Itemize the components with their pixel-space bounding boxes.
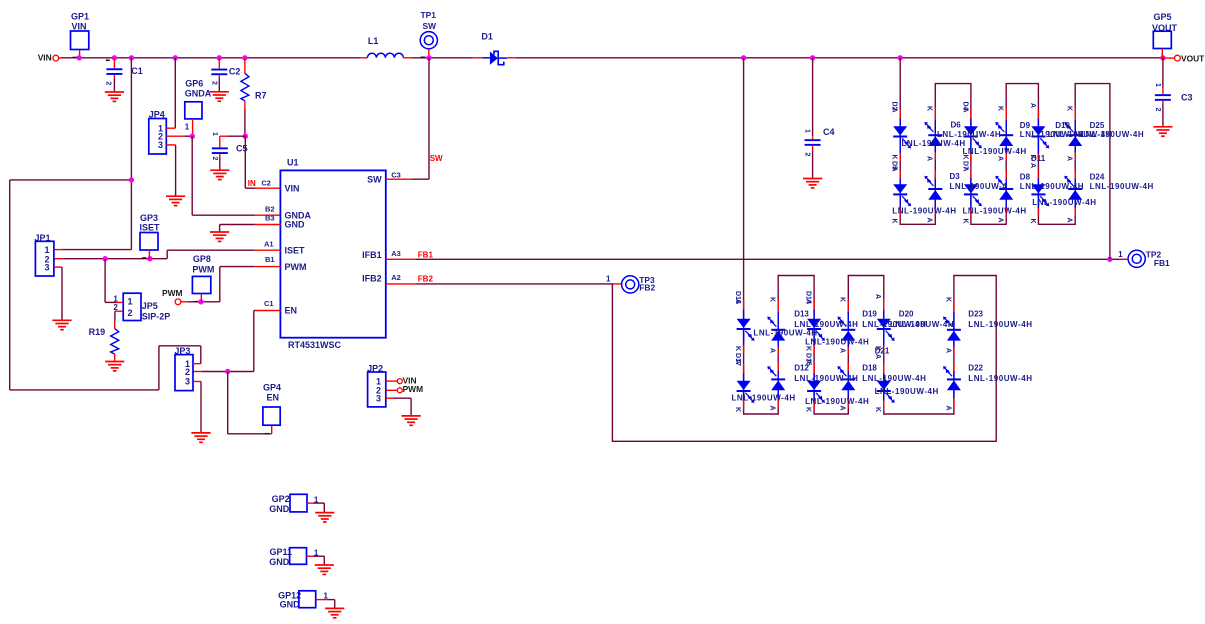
testpoint TP1 (420, 10, 437, 58)
svg-text:VIN: VIN (285, 183, 300, 193)
svg-text:A: A (944, 406, 951, 411)
svg-text:R7: R7 (255, 90, 267, 100)
svg-text:LNL-190UW-4H: LNL-190UW-4H (937, 130, 1001, 139)
svg-text:A: A (1029, 103, 1036, 108)
svg-text:B2: B2 (265, 205, 275, 214)
inductor L1 (367, 36, 403, 58)
svg-text:K: K (769, 297, 776, 302)
svg-text:LNL-190UW-4H: LNL-190UW-4H (1080, 130, 1144, 139)
ground of C1 (105, 92, 124, 101)
svg-text:RT4531WSC: RT4531WSC (288, 340, 342, 350)
svg-text:1: 1 (606, 274, 611, 283)
svg-text:ISET: ISET (140, 223, 161, 233)
label LED D4 value (963, 147, 1027, 156)
capacitor C4 (804, 58, 835, 179)
svg-text:GP2: GP2 (272, 494, 290, 504)
svg-text:VOUT: VOUT (1181, 54, 1205, 64)
LED column 5 bottom array (anodes down) (877, 299, 895, 409)
svg-text:PWM: PWM (162, 288, 182, 298)
connector JP4 (149, 110, 167, 155)
svg-text:K: K (805, 407, 812, 412)
svg-text:K: K (891, 155, 898, 160)
svg-text:SW: SW (430, 154, 443, 163)
wire JP2 pin1 to VIN flag (386, 375, 417, 385)
label LED D9 (1020, 121, 1084, 139)
wire FB2 net (386, 274, 622, 284)
label LED D8 (1020, 173, 1084, 192)
LED column 4 top array (anodes up) (995, 107, 1013, 215)
connector JP2 (367, 363, 386, 407)
wire ISET net (54, 250, 281, 259)
svg-text:FB1: FB1 (1154, 258, 1170, 268)
wire EN net (193, 311, 280, 372)
connector pad GP11 GND (269, 547, 324, 567)
svg-text:1: 1 (211, 132, 218, 136)
connector JP5 SIP-2P (113, 293, 170, 321)
LED column 6 bottom array (anodes up) (943, 300, 961, 408)
svg-text:A: A (769, 348, 776, 353)
node VIN port flag (38, 53, 59, 63)
ground of GP12 (325, 608, 344, 617)
pin labels top LED column 5 (1029, 103, 1036, 224)
capacitor C5 (211, 132, 248, 170)
svg-text:D11: D11 (1031, 154, 1046, 163)
connector pad GP5 VOUT (1152, 12, 1178, 58)
svg-text:K: K (805, 346, 812, 351)
LED column 4 bottom array (anodes up) (837, 300, 855, 408)
svg-text:2: 2 (127, 308, 132, 318)
testpoint TP2 FB1 (1118, 249, 1170, 268)
svg-text:LNL-190UW-4H: LNL-190UW-4H (732, 393, 796, 402)
label LED D21 (875, 347, 890, 356)
svg-text:K: K (839, 297, 846, 302)
ground of C4 (803, 179, 822, 188)
svg-text:B1: B1 (265, 255, 275, 264)
svg-text:LNL-190UW-4H: LNL-190UW-4H (794, 374, 858, 383)
svg-text:A: A (839, 348, 846, 353)
pin labels top LED column 6 (1066, 106, 1073, 223)
label LED D10 (1048, 121, 1112, 139)
svg-text:1: 1 (1118, 250, 1123, 259)
ground of GP2 (315, 513, 334, 522)
svg-text:2: 2 (211, 81, 218, 85)
svg-text:D21: D21 (875, 347, 890, 356)
label LED D18 (862, 364, 926, 384)
svg-text:LNL-190UW-4H: LNL-190UW-4H (963, 206, 1027, 215)
svg-text:R19: R19 (89, 327, 106, 337)
label LED D11 value (1032, 198, 1096, 207)
LED column 1 top array (anodes down) (893, 110, 911, 216)
node PWM port flag (162, 288, 198, 304)
svg-text:GP1: GP1 (71, 12, 89, 22)
pin labels top LED column 1 (891, 102, 898, 224)
svg-text:A: A (805, 299, 812, 304)
svg-text:3: 3 (185, 376, 190, 386)
svg-text:C3: C3 (1181, 93, 1193, 103)
svg-text:1: 1 (314, 548, 319, 557)
svg-text:GND: GND (285, 220, 306, 230)
wire JP4 pin1 to rail (174, 58, 176, 128)
svg-text:EN: EN (285, 306, 298, 316)
svg-text:L1: L1 (368, 36, 379, 46)
resistor R7 (241, 58, 267, 136)
svg-text:D3: D3 (950, 172, 961, 181)
connector pad GP12 GND (278, 591, 335, 610)
svg-text:1: 1 (185, 123, 190, 132)
svg-text:GNDA: GNDA (185, 89, 212, 99)
svg-text:B3: B3 (265, 214, 275, 223)
label LED D20 (890, 310, 954, 329)
ground of JP3 pin3 (191, 433, 210, 442)
pin labels bottom LED column 5 (874, 294, 881, 412)
svg-text:1: 1 (314, 495, 319, 504)
svg-text:D9: D9 (1020, 121, 1031, 130)
connector pad GP6 GNDA (185, 79, 212, 137)
ground of C5 (210, 170, 229, 179)
svg-text:D12: D12 (794, 364, 809, 373)
svg-text:FB2: FB2 (418, 274, 434, 283)
svg-text:LNL-190UW-4H: LNL-190UW-4H (1090, 182, 1154, 191)
label LED D22 (968, 364, 1032, 384)
svg-text:LNL-190UW-4H: LNL-190UW-4H (968, 320, 1032, 329)
svg-text:LNL-190UW-4H: LNL-190UW-4H (963, 147, 1027, 156)
svg-text:C2: C2 (261, 178, 271, 187)
LED column 3 bottom array (anodes down) (807, 299, 825, 409)
svg-text:D6: D6 (951, 121, 962, 130)
svg-text:A: A (926, 218, 933, 223)
wire top VIN/VOUT rail (61, 57, 1163, 59)
svg-text:A2: A2 (391, 273, 401, 282)
svg-text:A: A (997, 156, 1004, 161)
resistor R19 (89, 327, 119, 362)
svg-text:JP5: JP5 (142, 301, 158, 311)
svg-text:D25: D25 (1090, 121, 1105, 130)
svg-text:K: K (926, 106, 933, 111)
svg-text:C1: C1 (131, 66, 143, 76)
label LED D7 value (963, 206, 1027, 215)
svg-text:GND: GND (269, 504, 290, 514)
svg-text:1: 1 (127, 297, 132, 307)
svg-text:FB1: FB1 (418, 250, 434, 259)
svg-text:A: A (874, 294, 881, 299)
wire VIN stub (59, 57, 61, 59)
svg-text:FB2: FB2 (639, 283, 655, 293)
svg-text:K: K (1066, 106, 1073, 111)
svg-text:A: A (926, 156, 933, 161)
svg-text:D10: D10 (1055, 121, 1070, 130)
svg-text:VIN: VIN (38, 53, 52, 63)
wire PWM net (181, 267, 281, 302)
svg-text:A1: A1 (264, 240, 274, 249)
label LED D15 value (805, 397, 869, 406)
svg-text:PWM: PWM (403, 384, 423, 394)
pin labels bottom LED column 3 (805, 291, 812, 412)
diode D1 (473, 32, 516, 65)
connector pad GP2 GND (269, 494, 324, 514)
wire JP3 pin1 to left loop (10, 180, 201, 390)
svg-text:1: 1 (1154, 83, 1161, 87)
svg-text:IFB1: IFB1 (362, 250, 382, 260)
ground of C3 (1153, 127, 1172, 136)
svg-text:3: 3 (158, 140, 163, 150)
label LED D16 value (753, 328, 817, 337)
svg-text:A: A (944, 348, 951, 353)
svg-text:GND: GND (269, 557, 290, 567)
svg-text:GP3: GP3 (140, 213, 158, 223)
label LED D23 (968, 310, 1032, 329)
svg-text:A: A (891, 108, 898, 113)
svg-text:D13: D13 (794, 310, 809, 319)
svg-text:1: 1 (324, 592, 329, 601)
svg-text:TP1: TP1 (421, 10, 437, 20)
svg-text:D18: D18 (862, 364, 877, 373)
node GNDA junction dot (190, 134, 195, 139)
ground of R19 (105, 362, 124, 371)
pin labels bottom LED column 4 (839, 297, 846, 411)
svg-text:LNL-190UW-4: LNL-190UW-4 (950, 182, 1008, 191)
svg-text:LNL-190UW-4H: LNL-190UW-4H (875, 387, 939, 396)
svg-text:ISET: ISET (285, 245, 306, 255)
connector pad GP1 VIN (71, 12, 90, 59)
wire GNDA net to U1 (192, 136, 280, 215)
wire IN net to U1 VIN (245, 136, 280, 188)
node VOUT port flag (1163, 54, 1205, 64)
capacitor C3 (1154, 58, 1193, 127)
pin labels top LED column 2 (926, 106, 933, 223)
wire VIN-column down to JP1 row (130, 58, 132, 250)
svg-text:K: K (874, 407, 881, 412)
svg-text:2: 2 (211, 157, 218, 161)
svg-text:IFB2: IFB2 (362, 274, 382, 284)
node ISET junction dots (102, 256, 152, 261)
label LED D2 value (902, 139, 966, 148)
pin labels bottom LED column 2 (769, 297, 776, 411)
svg-text:LNL-190UW-4H: LNL-190UW-4H (862, 374, 926, 383)
wire JP2 pin3 to ground (386, 398, 411, 416)
node IN junction dot (243, 134, 248, 139)
label LED D13 (794, 310, 858, 329)
testpoint TP3 FB2 (606, 274, 655, 293)
svg-text:IN: IN (248, 179, 256, 188)
connector pad GP3 ISET (140, 213, 161, 259)
node left loop junction dot (129, 177, 134, 182)
ground of JP2 pin3 (402, 416, 421, 425)
svg-text:GND: GND (280, 600, 301, 610)
node FB1 junction dot (1107, 257, 1112, 262)
label LED D25 (1080, 121, 1144, 139)
wire EN to GP4 (228, 372, 272, 435)
svg-text:LNL-190UW-4H: LNL-190UW-4H (1020, 182, 1084, 191)
svg-text:A: A (1066, 218, 1073, 223)
connector JP1 (35, 233, 54, 276)
svg-text:K: K (891, 219, 898, 224)
svg-text:C2: C2 (229, 67, 241, 77)
LED column 1 bottom array (anodes down) (737, 299, 755, 409)
svg-text:A: A (769, 406, 776, 411)
node EN junction dot (225, 369, 230, 374)
svg-text:C3: C3 (391, 170, 401, 179)
label LED D6 (937, 121, 1001, 139)
svg-text:D19: D19 (862, 310, 877, 319)
svg-text:A: A (734, 359, 741, 364)
svg-text:2: 2 (1154, 108, 1161, 112)
wire JP5 pin2 to R19 (115, 311, 124, 328)
svg-text:K: K (944, 297, 951, 302)
svg-text:LNL-190UW-4H: LNL-190UW-4H (968, 374, 1032, 383)
wire U1 GND pin to ground (220, 225, 281, 233)
svg-text:A: A (1029, 163, 1036, 168)
pin labels top LED column 3 (961, 102, 968, 224)
label LED D24 (1090, 173, 1154, 192)
ground of JP4 pin3 (166, 196, 185, 205)
capacitor C2 (211, 58, 241, 92)
ground of U1 GND (210, 232, 229, 241)
pin labels top LED column 4 (997, 106, 1004, 223)
svg-text:SW: SW (367, 174, 382, 184)
svg-text:A: A (1066, 156, 1073, 161)
connector pad GP8 PWM (192, 254, 214, 302)
svg-text:A: A (839, 406, 846, 411)
wire ISET to JP5 pin1 (105, 259, 123, 303)
wire JP2 pin2 to PWM flag (386, 384, 423, 394)
svg-text:U1: U1 (287, 157, 299, 167)
svg-text:D24: D24 (1090, 173, 1105, 182)
svg-text:A: A (961, 167, 968, 172)
svg-text:2: 2 (804, 153, 811, 157)
svg-text:PWM: PWM (285, 262, 307, 272)
svg-text:D20: D20 (899, 310, 914, 319)
svg-text:GP6: GP6 (185, 79, 203, 89)
label LED D12 (794, 364, 858, 384)
wire SW net from U1 to rail (386, 58, 443, 179)
svg-text:K: K (734, 407, 741, 412)
svg-text:SIP-2P: SIP-2P (142, 312, 171, 322)
svg-text:2: 2 (105, 81, 112, 85)
svg-text:K: K (734, 346, 741, 351)
LED column 2 top array (anodes up) (924, 107, 942, 215)
LED column 5 top array (anodes down) (1031, 110, 1049, 216)
svg-text:K: K (1029, 219, 1036, 224)
pin labels bottom LED column 1 (734, 291, 741, 412)
ground of C2 (210, 92, 229, 101)
svg-text:GP5: GP5 (1154, 12, 1172, 22)
svg-text:A: A (891, 167, 898, 172)
svg-text:K: K (961, 219, 968, 224)
svg-text:A: A (997, 218, 1004, 223)
svg-text:3: 3 (376, 393, 381, 403)
IC U1 RT4531WSC (261, 157, 400, 350)
label LED D11 (1031, 154, 1046, 163)
svg-text:PWM: PWM (192, 264, 214, 274)
wire FB1 net (386, 250, 1128, 259)
svg-text:D8: D8 (1020, 173, 1031, 182)
svg-text:A: A (734, 299, 741, 304)
connector JP3 (174, 346, 193, 391)
svg-text:3: 3 (44, 263, 49, 273)
svg-text:D1: D1 (481, 32, 493, 42)
svg-text:LNL-190UW-4H: LNL-190UW-4H (753, 328, 817, 337)
wire JP3 pin3 to ground (193, 382, 201, 433)
svg-text:GP8: GP8 (193, 254, 211, 264)
label LED D21 value (875, 387, 939, 396)
svg-text:LNL-190UW-4H: LNL-190UW-4H (805, 397, 869, 406)
svg-text:GP11: GP11 (269, 547, 292, 557)
svg-text:C1: C1 (264, 299, 274, 308)
pin labels bottom LED column 6 (944, 297, 951, 411)
ground of JP1 pin3 (52, 320, 71, 329)
svg-text:LNL-190UW-4H: LNL-190UW-4H (805, 338, 869, 347)
wire bottom LED array serpentine (612, 58, 996, 442)
junction dots on top rail (77, 55, 1166, 60)
svg-text:LNL-190UW-4H: LNL-190UW-4H (892, 206, 956, 215)
capacitor C1 (105, 58, 143, 92)
svg-text:1: 1 (804, 129, 811, 133)
svg-text:D22: D22 (968, 364, 983, 373)
svg-text:EN: EN (267, 393, 280, 403)
svg-text:K: K (997, 106, 1004, 111)
svg-text:A3: A3 (391, 249, 401, 258)
svg-text:VIN: VIN (72, 22, 87, 32)
svg-text:LNL-190UW-4H: LNL-190UW-4H (902, 139, 966, 148)
svg-text:C4: C4 (823, 127, 835, 137)
svg-text:GP4: GP4 (263, 383, 281, 393)
node PWM junction dot (198, 299, 203, 304)
ground of GP11 (315, 565, 334, 574)
label LED D5 value (892, 206, 956, 215)
LED column 6 top array (anodes up) (1064, 107, 1082, 215)
LED column 3 top array (anodes down) (964, 110, 982, 216)
wire JP1 pin stubs (54, 250, 131, 321)
wire JP4 pin stubs (166, 128, 192, 196)
svg-text:LNL-190UW-4H: LNL-190UW-4H (1032, 198, 1096, 207)
wire L1 leads (361, 57, 412, 59)
label LED D19 (862, 310, 926, 329)
wire top LED array serpentine (900, 58, 1110, 259)
label LED D17 value (732, 393, 796, 402)
svg-text:LNL-190UW-4H: LNL-190UW-4H (890, 320, 954, 329)
svg-text:SW: SW (423, 21, 437, 31)
label LED D13 value2 (805, 338, 869, 347)
label LED D3 (950, 172, 1008, 191)
connector pad GP4 EN (263, 383, 281, 426)
svg-text:D23: D23 (968, 310, 983, 319)
svg-text:A: A (961, 108, 968, 113)
LED column 2 bottom array (anodes up) (767, 300, 785, 408)
